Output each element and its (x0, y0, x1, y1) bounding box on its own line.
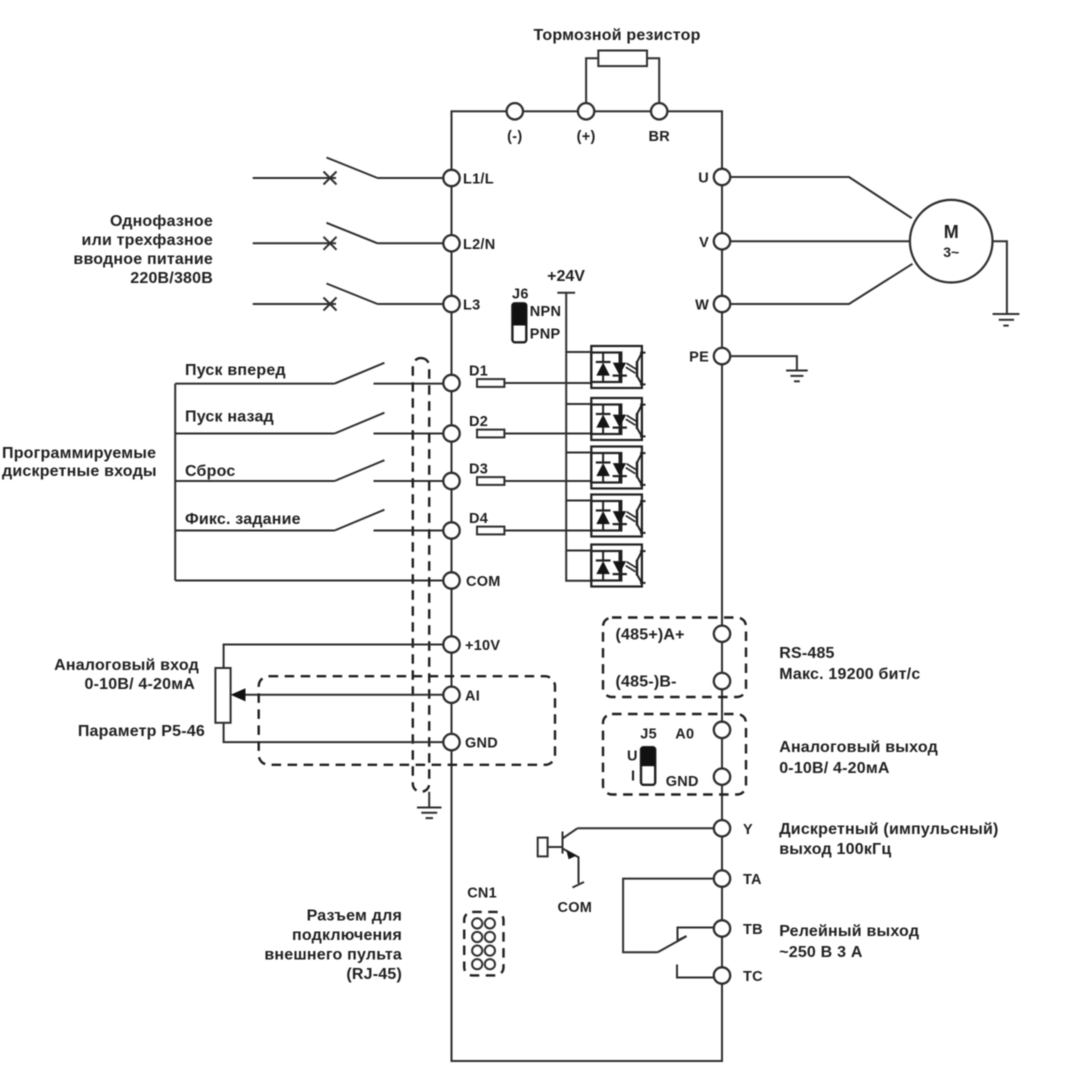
svg-text:(RJ-45): (RJ-45) (346, 966, 402, 983)
svg-text:220В/380В: 220В/380В (130, 270, 213, 287)
resistor D3 (477, 477, 504, 485)
wire D3 to optocoupler (504, 480, 591, 482)
label RS-485 (779, 645, 920, 683)
svg-text:Аналоговый вход: Аналоговый вход (54, 657, 199, 674)
label Аналоговый выход (779, 739, 938, 777)
wire wiper to AI (246, 694, 444, 696)
svg-text:Дискретный (импульсный): Дискретный (импульсный) (779, 821, 998, 838)
svg-text:BR: BR (648, 129, 670, 145)
wire (+) to brake resistor (586, 58, 598, 103)
terminal GND analog out (714, 769, 730, 785)
wire L3 to terminal (378, 303, 444, 305)
dashed box RS-485 (603, 618, 746, 698)
svg-text:+10V: +10V (465, 638, 500, 654)
svg-text:U: U (698, 171, 709, 187)
resistor D2 (477, 430, 504, 438)
digital input left bus wire (174, 384, 176, 581)
svg-text:0-10В/ 4-20мА: 0-10В/ 4-20мА (85, 676, 196, 693)
switch D4 (175, 510, 443, 531)
svg-text:U: U (627, 749, 638, 765)
switch blade L3 (327, 284, 378, 305)
svg-text:PNP: PNP (530, 327, 561, 343)
svg-text:Пуск назад: Пуск назад (185, 409, 274, 426)
label Релейный выход (779, 923, 919, 961)
label Дискретный выход (779, 821, 998, 858)
svg-text:3~: 3~ (943, 244, 959, 260)
terminal PE (714, 348, 730, 364)
svg-text:COM: COM (558, 900, 593, 916)
connector CN1 (464, 912, 503, 976)
terminal (+) (578, 103, 594, 119)
wire rail to optocoupler 4 (566, 500, 591, 502)
svg-text:0-10В/ 4-20мА: 0-10В/ 4-20мА (779, 760, 890, 777)
wire motor to ground (993, 241, 1007, 313)
relay TC contact (677, 965, 714, 978)
terminal AI (443, 687, 459, 703)
terminal A0 (714, 722, 730, 738)
wire U to motor (730, 177, 912, 218)
jumper J5 (641, 747, 655, 785)
svg-text:или трехфазное: или трехфазное (82, 232, 213, 249)
wire rail to optocoupler 3 (566, 452, 591, 454)
wire D1 to optocoupler (504, 382, 591, 384)
fuse X mark L2 (324, 237, 337, 250)
svg-text:PE: PE (689, 350, 709, 366)
svg-text:Однофазное: Однофазное (110, 213, 213, 230)
svg-text:выход 100кГц: выход 100кГц (779, 841, 891, 858)
optocoupler 5 (591, 545, 645, 587)
terminal Y (714, 820, 730, 836)
terminal GND analog (443, 734, 459, 750)
potentiometer body (215, 668, 230, 723)
terminal TC (714, 967, 730, 983)
brake resistor body (598, 51, 647, 67)
dashed box analog output (603, 714, 746, 795)
wire L1 to terminal (378, 177, 444, 179)
optocoupler 3 (591, 447, 645, 489)
switch blade L2 (327, 223, 378, 244)
svg-text:вводное питание: вводное питание (73, 251, 213, 268)
svg-text:D3: D3 (469, 462, 488, 478)
wire D2 to optocoupler (504, 433, 591, 435)
wire collector to Y (577, 827, 713, 829)
wire L1 input (253, 177, 336, 179)
svg-text:(485+)A+: (485+)A+ (616, 627, 685, 644)
relay blade (658, 936, 687, 952)
wire D4 to optocoupler (504, 530, 591, 532)
svg-text:Параметр Р5-46: Параметр Р5-46 (78, 723, 205, 740)
ground motor (993, 314, 1020, 326)
svg-text:Релейный выход: Релейный выход (779, 923, 919, 940)
terminal D2 (443, 425, 459, 441)
ground PE (786, 371, 808, 382)
svg-text:Макс. 19200 бит/с: Макс. 19200 бит/с (779, 666, 920, 683)
svg-text:~250 В 3 А: ~250 В 3 А (779, 944, 863, 961)
terminal D3 (443, 473, 459, 489)
terminal L2/N (443, 235, 459, 251)
terminal (-) (507, 103, 523, 119)
svg-text:Y: Y (743, 822, 753, 838)
svg-text:TA: TA (743, 872, 762, 888)
terminal D1 (443, 375, 459, 391)
svg-text:Тормозной резистор: Тормозной резистор (533, 27, 700, 44)
svg-text:NPN: NPN (530, 304, 561, 320)
dashed box analog input (259, 676, 555, 765)
terminal U (714, 169, 730, 185)
svg-text:Разъем для: Разъем для (307, 908, 402, 925)
optocoupler 1 (591, 346, 645, 388)
terminal COM (443, 572, 459, 588)
relay TA arm (623, 879, 714, 953)
svg-text:M: M (944, 222, 959, 242)
svg-text:L3: L3 (463, 298, 480, 314)
svg-text:D4: D4 (469, 511, 488, 527)
terminal L3 (443, 296, 459, 312)
optocoupler 4 (591, 495, 645, 537)
svg-text:AI: AI (465, 688, 480, 704)
svg-text:(+): (+) (577, 129, 596, 145)
wire L3 input (253, 303, 336, 305)
svg-text:RS-485: RS-485 (779, 645, 834, 662)
svg-text:L2/N: L2/N (463, 237, 495, 253)
wire rail to optocoupler 2 (566, 403, 591, 405)
relay TB contact (678, 928, 714, 941)
svg-text:COM: COM (466, 574, 501, 590)
svg-text:J5: J5 (640, 727, 657, 743)
fuse X mark L3 (324, 298, 337, 311)
svg-text:+24V: +24V (547, 268, 585, 285)
wire COM return (175, 580, 443, 582)
wire PE to ground (730, 356, 797, 370)
terminal B- (714, 673, 730, 689)
resistor D1 (477, 379, 504, 387)
wire rail to optocoupler 1 (566, 351, 591, 353)
terminal BR (651, 103, 667, 119)
svg-text:D1: D1 (469, 364, 488, 380)
switch D2 (175, 413, 443, 434)
ground of shield (417, 792, 442, 818)
transistor Y output (538, 828, 584, 887)
wire L2 to terminal (378, 242, 444, 244)
label Разъем для подключения (264, 908, 402, 984)
terminal +10V (443, 636, 459, 652)
svg-text:Фикс. задание: Фикс. задание (185, 511, 301, 528)
terminal D4 (443, 522, 459, 538)
shielded cable dashed run (413, 358, 429, 792)
svg-text:I: I (631, 769, 635, 785)
terminal A+ (714, 626, 730, 642)
svg-text:W: W (695, 298, 709, 314)
svg-text:D2: D2 (469, 414, 488, 430)
svg-text:Пуск вперед: Пуск вперед (185, 362, 286, 379)
svg-text:внешнего пульта: внешнего пульта (264, 947, 402, 964)
switch D1 (175, 363, 443, 384)
svg-text:Сброс: Сброс (185, 463, 235, 480)
main drive enclosure rectangle (452, 111, 723, 1061)
svg-text:TB: TB (743, 922, 763, 938)
label Аналоговый вход (54, 657, 199, 693)
terminal V (714, 233, 730, 249)
label digital inputs group (2, 445, 157, 480)
motor M 3~ (910, 200, 993, 283)
svg-text:GND: GND (465, 736, 498, 752)
svg-text:GND: GND (666, 774, 699, 790)
svg-text:V: V (699, 235, 709, 251)
label input power 4 lines (73, 213, 213, 287)
svg-text:L1/L: L1/L (463, 172, 494, 188)
svg-text:CN1: CN1 (467, 886, 497, 902)
svg-text:A0: A0 (675, 727, 694, 743)
wire rail to optocoupler 5 (566, 550, 591, 552)
terminal L1/L (443, 170, 459, 186)
resistor D4 (477, 527, 504, 535)
svg-text:(-): (-) (507, 129, 522, 145)
svg-text:(485-)B-: (485-)B- (616, 674, 677, 691)
svg-text:дискретные входы: дискретные входы (2, 463, 157, 480)
wire V to motor (730, 240, 910, 242)
fuse X mark L1 (324, 172, 337, 185)
switch D3 (175, 460, 443, 481)
wire +10V to potentiometer (224, 645, 444, 669)
+24V rail (557, 293, 591, 581)
svg-text:TC: TC (743, 969, 763, 985)
potentiometer wiper arrow (231, 688, 246, 701)
optocoupler 2 (591, 398, 645, 440)
terminal W (714, 296, 730, 312)
svg-text:J6: J6 (512, 287, 529, 303)
svg-text:Аналоговый выход: Аналоговый выход (779, 739, 938, 756)
svg-text:подключения: подключения (292, 927, 402, 944)
wire potentiometer bottom to GND (224, 723, 444, 742)
wire W to motor (730, 264, 912, 304)
terminal TA (714, 870, 730, 886)
switch blade L1 (327, 158, 378, 179)
wire BR to brake resistor (647, 58, 659, 103)
terminal TB (714, 920, 730, 936)
wire L2 input (253, 242, 336, 244)
jumper J6 (512, 303, 526, 342)
svg-text:Программируемые: Программируемые (2, 445, 156, 462)
